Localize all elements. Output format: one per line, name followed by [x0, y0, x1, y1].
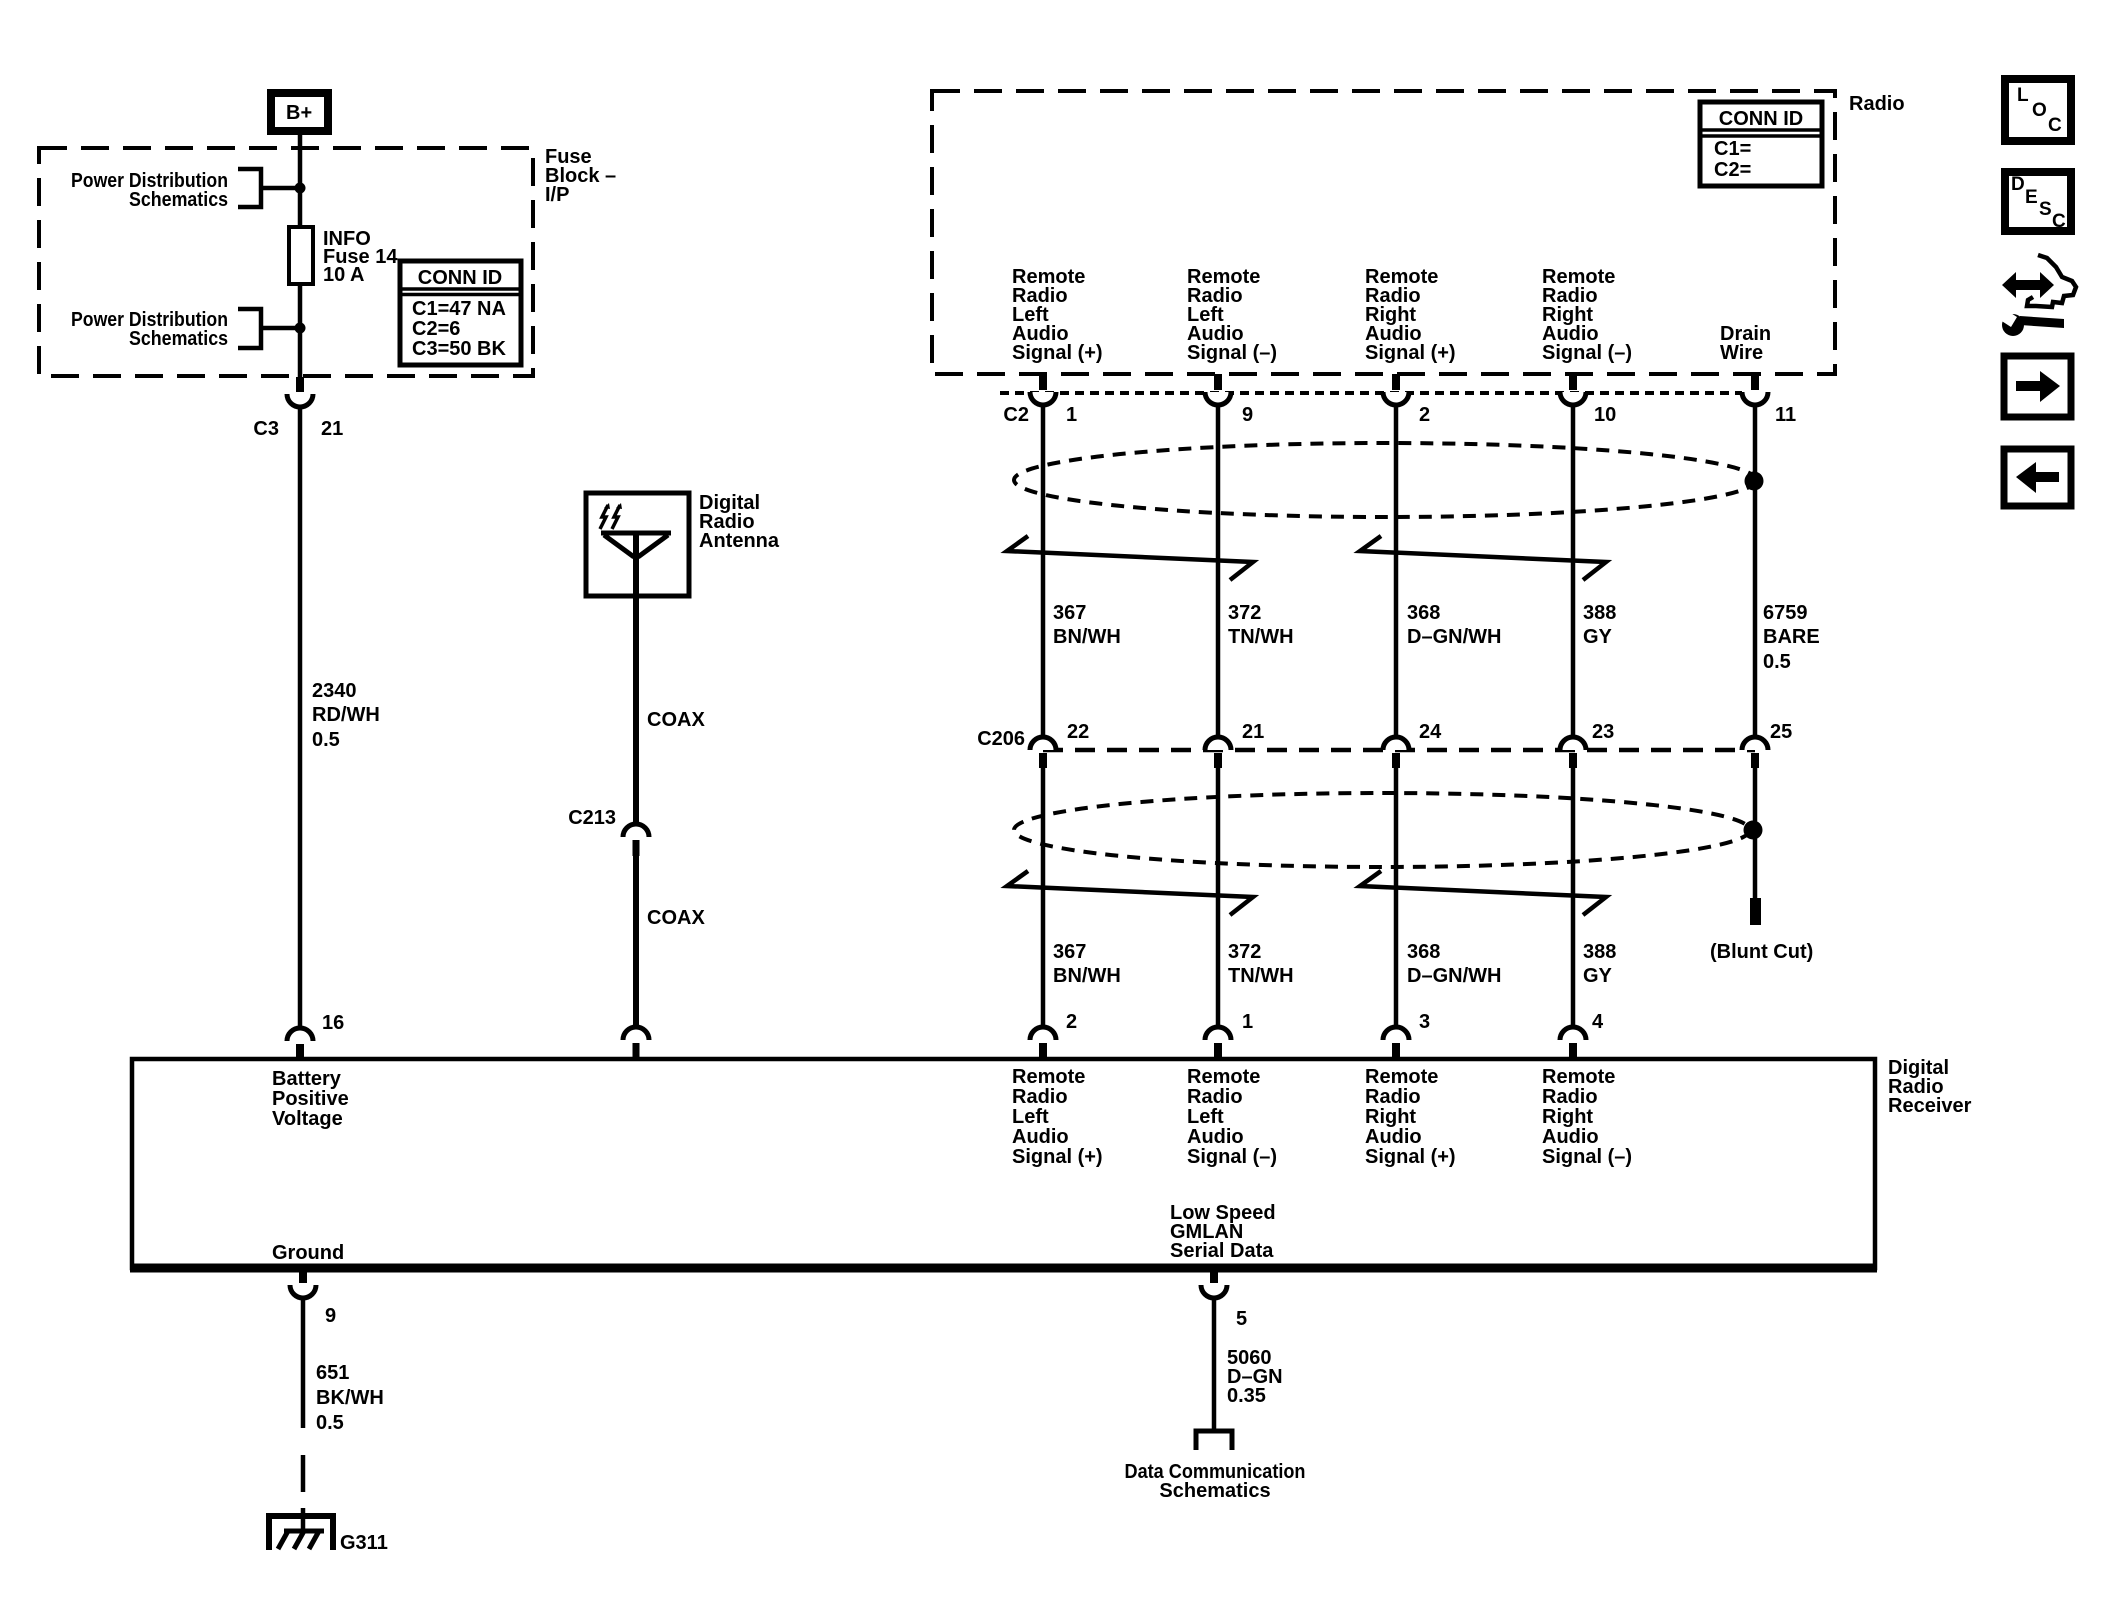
connector C2 pin 11: [1742, 374, 1796, 426]
svg-text:367: 367: [1053, 602, 1086, 624]
svg-text:Serial Data: Serial Data: [1170, 1240, 1274, 1262]
receiver connector pin 2: [1030, 1011, 1077, 1059]
svg-text:Audio: Audio: [1012, 1126, 1069, 1148]
twist symbol T2: [1360, 536, 1606, 580]
icon wrench with double arrow: [1997, 255, 2076, 336]
wire 388 GY (upper): [1573, 405, 1616, 738]
svg-text:(Blunt Cut): (Blunt Cut): [1710, 941, 1813, 963]
receiver label: Remote Radio Right Audio Signal (+): [1365, 1066, 1456, 1168]
wire 367 BN/WH (lower): [1043, 768, 1121, 1026]
svg-text:0.35: 0.35: [1227, 1385, 1266, 1407]
CONN ID table (fuse block): [400, 261, 521, 365]
svg-text:C2=: C2=: [1714, 159, 1751, 181]
svg-text:0.5: 0.5: [316, 1412, 344, 1434]
svg-text:Signal (–): Signal (–): [1187, 1146, 1277, 1168]
svg-text:Signal (+): Signal (+): [1012, 1146, 1103, 1168]
svg-text:367: 367: [1053, 941, 1086, 963]
RF wave bolts: [600, 505, 608, 529]
svg-text:TN/WH: TN/WH: [1228, 626, 1294, 648]
receiver label: Remote Radio Left Audio Signal (-): [1187, 1066, 1277, 1168]
radio pin label: Remote Radio Right Audio Signal (+): [1365, 266, 1456, 364]
antenna symbol: [601, 531, 671, 536]
wrench: [2002, 314, 2024, 336]
drain junction dot 1: [1745, 472, 1764, 491]
svg-text:651: 651: [316, 1362, 349, 1384]
twist symbol T3: [1007, 871, 1253, 915]
svg-text:22: 22: [1067, 721, 1089, 743]
svg-text:C2=6: C2=6: [412, 318, 460, 340]
svg-text:G311: G311: [340, 1532, 388, 1554]
receiver connector pin 9 (ground): [290, 1268, 336, 1327]
svg-text:C206: C206: [977, 728, 1025, 750]
double arrow: [2002, 272, 2054, 298]
icon forward arrow box: [2004, 356, 2071, 417]
receiver connector pin 4: [1560, 1011, 1604, 1059]
wire 368 D-GN/WH (lower): [1396, 768, 1501, 1026]
wire 651 BK/WH 0.5: [303, 1296, 384, 1434]
svg-text:COAX: COAX: [647, 907, 705, 929]
svg-text:Voltage: Voltage: [272, 1108, 343, 1130]
svg-text:9: 9: [325, 1305, 336, 1327]
svg-text:Radio: Radio: [1187, 1086, 1243, 1108]
receiver connector pin 5 (GMLAN): [1201, 1268, 1247, 1330]
ground symbol G311: [269, 1516, 388, 1554]
radio pin label: Remote Radio Right Audio Signal (-): [1542, 266, 1632, 364]
drain wire to blunt cut: [1753, 768, 1758, 898]
svg-text:Left: Left: [1012, 1106, 1049, 1128]
connector C206 pin 25: [1742, 721, 1792, 768]
svg-text:Signal (–): Signal (–): [1542, 1146, 1632, 1168]
svg-text:Remote: Remote: [1012, 1066, 1085, 1088]
svg-text:I/P: I/P: [545, 184, 569, 206]
wire 388 GY (lower): [1573, 768, 1616, 1026]
svg-text:368: 368: [1407, 602, 1440, 624]
wire 5060 D-GN 0.35: [1214, 1296, 1283, 1429]
svg-text:372: 372: [1228, 941, 1261, 963]
connector C2 pin 1: [1003, 374, 1077, 426]
connector pin 16 at receiver: [287, 1012, 344, 1059]
receiver label: Remote Radio Right Audio Signal (-): [1542, 1066, 1632, 1168]
svg-text:C3=50 BK: C3=50 BK: [412, 338, 506, 360]
drain junction dot 2: [1744, 821, 1763, 840]
svg-text:RD/WH: RD/WH: [312, 704, 380, 726]
connector C213: [568, 807, 649, 856]
wire 372 TN/WH (lower): [1218, 768, 1294, 1026]
Radio dashed box: [932, 91, 1835, 374]
connector C2 pin 10: [1560, 374, 1616, 426]
svg-text:4: 4: [1592, 1011, 1604, 1033]
svg-text:C: C: [2052, 211, 2066, 232]
svg-text:Radio: Radio: [1012, 1086, 1068, 1108]
svg-text:10: 10: [1594, 404, 1616, 426]
svg-text:Schematics: Schematics: [1159, 1480, 1270, 1502]
svg-text:Signal (–): Signal (–): [1187, 342, 1277, 364]
CONN ID table (radio): [1700, 102, 1822, 186]
svg-text:24: 24: [1419, 721, 1442, 743]
svg-text:E: E: [2025, 187, 2038, 208]
svg-text:CONN ID: CONN ID: [418, 267, 502, 289]
connector C2 pin 2: [1383, 374, 1430, 426]
connector row C2: gang dashed line: [1000, 391, 1742, 395]
svg-text:2340: 2340: [312, 680, 357, 702]
wire B+ to fuse: [298, 135, 303, 227]
icon back arrow box: [2004, 449, 2071, 506]
svg-text:S: S: [2039, 199, 2052, 220]
svg-text:BN/WH: BN/WH: [1053, 626, 1121, 648]
svg-text:C2: C2: [1003, 404, 1029, 426]
wire 372 TN/WH (upper): [1218, 405, 1294, 738]
svg-text:C3: C3: [253, 418, 279, 440]
svg-text:0.5: 0.5: [1763, 651, 1791, 673]
connector C3 pin 21: [253, 377, 343, 440]
svg-text:Remote: Remote: [1187, 1066, 1260, 1088]
svg-text:Schematics: Schematics: [129, 189, 228, 211]
svg-text:Signal (+): Signal (+): [1365, 342, 1456, 364]
shield ellipse 1: [1014, 443, 1756, 517]
svg-text:L: L: [2017, 85, 2029, 106]
Digital Radio Antenna box: [586, 492, 780, 596]
svg-text:D: D: [2011, 174, 2025, 195]
svg-text:3: 3: [1419, 1011, 1430, 1033]
svg-text:BN/WH: BN/WH: [1053, 965, 1121, 987]
receiver label: Low Speed GMLAN Serial Data: [1170, 1202, 1276, 1262]
svg-text:1: 1: [1066, 404, 1077, 426]
icon DESC box: [2005, 172, 2071, 232]
connector row C206: gang dashed line: [1043, 748, 1755, 753]
svg-text:Remote: Remote: [1542, 1066, 1615, 1088]
radio pin label: Remote Radio Left Audio Signal (-): [1187, 266, 1277, 364]
off-page reference: Power Distribution Schematics (bottom): [71, 309, 300, 350]
svg-text:21: 21: [1242, 721, 1264, 743]
label Data Communication Schematics: [1125, 1461, 1306, 1502]
svg-text:Antenna: Antenna: [699, 530, 780, 552]
svg-text:Battery: Battery: [272, 1068, 342, 1090]
svg-text:388: 388: [1583, 602, 1616, 624]
svg-text:Signal (+): Signal (+): [1365, 1146, 1456, 1168]
svg-text:Positive: Positive: [272, 1088, 349, 1110]
svg-text:Ground: Ground: [272, 1242, 344, 1264]
svg-text:Signal (–): Signal (–): [1542, 342, 1632, 364]
wire fuse to C3: [298, 284, 303, 377]
Digital Radio Receiver box: [130, 1057, 1972, 1268]
svg-text:C: C: [2048, 115, 2062, 136]
radio pin label: Remote Radio Left Audio Signal (+): [1012, 266, 1103, 364]
coax wire upper: [636, 596, 705, 823]
svg-text:0.5: 0.5: [312, 729, 340, 751]
svg-text:368: 368: [1407, 941, 1440, 963]
svg-text:C213: C213: [568, 807, 616, 829]
blunt cut terminal: [1710, 898, 1813, 963]
svg-text:TN/WH: TN/WH: [1228, 965, 1294, 987]
junction dot (top): [295, 183, 306, 194]
svg-text:C1=47 NA: C1=47 NA: [412, 298, 506, 320]
svg-text:2: 2: [1066, 1011, 1077, 1033]
svg-text:Schematics: Schematics: [129, 328, 228, 350]
svg-text:Receiver: Receiver: [1888, 1095, 1972, 1117]
dashed wire to ground: [301, 1455, 306, 1492]
shield ellipse 2: [1014, 793, 1750, 867]
wire 2340 RD/WH 0.5: [300, 405, 380, 1028]
svg-text:11: 11: [1775, 404, 1796, 426]
svg-text:Audio: Audio: [1542, 1126, 1599, 1148]
receiver label: Battery Positive Voltage: [272, 1068, 349, 1130]
twist symbol T1: [1007, 536, 1253, 580]
svg-text:Wire: Wire: [1720, 342, 1763, 364]
svg-text:Right: Right: [1542, 1106, 1593, 1128]
svg-text:COAX: COAX: [647, 709, 705, 731]
wire 368 D-GN/WH (upper): [1396, 405, 1501, 738]
svg-text:372: 372: [1228, 602, 1261, 624]
svg-text:Right: Right: [1365, 1106, 1416, 1128]
receiver label: Remote Radio Left Audio Signal (+): [1012, 1066, 1103, 1168]
svg-text:23: 23: [1592, 721, 1614, 743]
svg-text:BK/WH: BK/WH: [316, 1387, 384, 1409]
svg-text:Remote: Remote: [1365, 1066, 1438, 1088]
svg-text:9: 9: [1242, 404, 1253, 426]
svg-text:16: 16: [322, 1012, 344, 1034]
svg-text:D–GN/WH: D–GN/WH: [1407, 965, 1501, 987]
svg-text:Radio: Radio: [1849, 93, 1905, 115]
receiver connector pin 3: [1383, 1011, 1430, 1059]
svg-text:5: 5: [1236, 1308, 1247, 1330]
svg-text:1: 1: [1242, 1011, 1253, 1033]
svg-text:O: O: [2032, 100, 2047, 121]
svg-text:Left: Left: [1187, 1106, 1224, 1128]
outline shape: [2027, 255, 2076, 307]
coax wire lower: [636, 856, 705, 1026]
svg-text:BARE: BARE: [1763, 626, 1820, 648]
svg-text:GY: GY: [1583, 965, 1613, 987]
connector C206 pin 21: [1205, 721, 1264, 768]
fuse block dashed box: [39, 148, 533, 376]
svg-text:6759: 6759: [1763, 602, 1808, 624]
svg-text:Signal (+): Signal (+): [1012, 342, 1103, 364]
label Fuse Block - I/P: [545, 146, 616, 206]
svg-text:21: 21: [321, 418, 343, 440]
drain wire 6759 BARE 0.5: [1755, 405, 1820, 738]
antenna connector at receiver: [623, 1027, 649, 1059]
svg-text:10 A: 10 A: [323, 264, 365, 286]
svg-text:Radio: Radio: [1542, 1086, 1598, 1108]
svg-text:Radio: Radio: [1365, 1086, 1421, 1108]
twist symbol T4: [1360, 871, 1606, 915]
receiver connector pin 1: [1205, 1011, 1253, 1059]
svg-text:Audio: Audio: [1187, 1126, 1244, 1148]
icon LOC box: [2005, 79, 2071, 141]
connector C206 pin 24: [1383, 721, 1442, 768]
svg-text:D–GN/WH: D–GN/WH: [1407, 626, 1501, 648]
junction dot (bottom): [295, 323, 306, 334]
fuse F14 INFO Fuse 14 10 A: [289, 227, 398, 286]
svg-text:CONN ID: CONN ID: [1719, 108, 1803, 130]
svg-text:B+: B+: [286, 102, 312, 124]
data link symbol: [1196, 1431, 1232, 1450]
radio pin label: Drain Wire: [1720, 323, 1771, 364]
svg-text:C1=: C1=: [1714, 138, 1751, 160]
svg-text:2: 2: [1419, 404, 1430, 426]
off-page reference: Power Distribution Schematics (top): [71, 169, 300, 211]
svg-text:25: 25: [1770, 721, 1792, 743]
connector C2 pin 9: [1205, 374, 1253, 426]
svg-text:GY: GY: [1583, 626, 1613, 648]
power symbol B+ box: [271, 93, 328, 131]
connector C206 pin 22: [1030, 721, 1089, 768]
svg-text:Audio: Audio: [1365, 1126, 1422, 1148]
svg-text:388: 388: [1583, 941, 1616, 963]
connector C206 pin 23: [1560, 721, 1614, 768]
wire 367 BN/WH (upper): [1043, 405, 1121, 738]
